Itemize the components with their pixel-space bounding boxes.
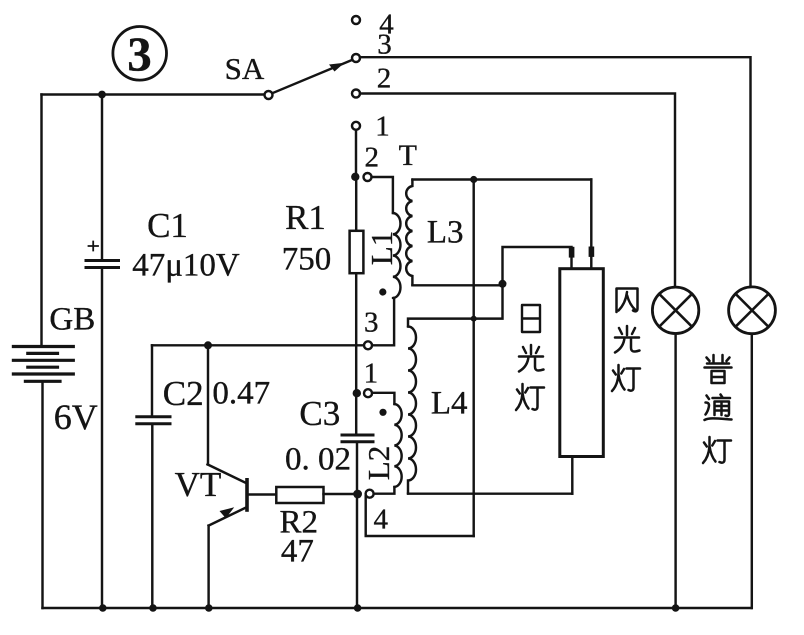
wire L1 top stub from terminal 2: [372, 177, 393, 213]
transistor VT base wire to R2: [249, 493, 277, 495]
node junctions on bottom rail: [99, 604, 107, 612]
label R2: [280, 505, 319, 542]
node junction HV vertical / L4 top line: [471, 316, 477, 322]
phase dot L1: [379, 288, 386, 295]
switch SA contact 1: [352, 122, 360, 130]
inductor L4 winding (secondary bottom, bumps right): [408, 327, 416, 494]
label C2 value 0.47: [212, 376, 270, 413]
battery GB: [13, 347, 73, 382]
switch SA contact 4: [352, 16, 360, 24]
label 闪光灯 (flash lamp): [617, 289, 638, 313]
label R1: [285, 198, 326, 238]
terminal 3 circle of transformer T: [364, 341, 372, 349]
label terminal 1: [364, 358, 379, 391]
lamp flash (闪光灯) bulb circle: [652, 287, 698, 333]
label C1: [147, 206, 188, 246]
capacitor C3 plates: [342, 435, 373, 442]
inductor L2 winding (feedback, bumps right): [394, 404, 401, 487]
C1 plus sign: [89, 242, 99, 251]
node junction collector branch: [204, 341, 212, 349]
lamp flash X: [659, 294, 692, 327]
switch SA pivot circle: [265, 91, 273, 99]
wire contact3 to ordinary lamp (top long wire): [360, 57, 751, 287]
inductor L3 winding (secondary top, bumps left): [406, 180, 412, 286]
capacitor C2 plates: [137, 417, 170, 424]
label 日光灯 (fluorescent lamp): [522, 305, 540, 332]
wire flash lamp bottom: [674, 334, 676, 609]
wire R2 to node: [324, 493, 357, 495]
label contact 1: [375, 111, 390, 144]
label contact 2: [377, 62, 392, 95]
fluorescent tube body: [560, 269, 604, 457]
label L2 (rotated): [361, 446, 397, 480]
tube right pin wire from L3-top line: [590, 180, 592, 247]
inductor L1 winding (primary, bumps right): [393, 213, 401, 298]
transistor VT (PNP) collector diagonal: [208, 464, 247, 483]
wire L3 top horizontal to right pin corner: [412, 178, 591, 180]
label GB: [49, 302, 95, 339]
capacitor C1 (electrolytic, polarized): [86, 261, 119, 268]
label 普通灯 (ordinary lamp): [705, 355, 732, 383]
label 6V: [54, 396, 98, 438]
lamp ordinary (普通灯) bulb circle: [729, 287, 776, 334]
wire long HV vertical: [472, 180, 474, 537]
label L4: [431, 386, 468, 423]
label terminal 3: [364, 307, 379, 340]
terminal 2 circle of transformer T: [364, 173, 372, 181]
wire L4 bottom horizontal to tube bottom stub: [408, 492, 572, 494]
label terminal 2: [365, 142, 380, 175]
circled figure number 3 badge: [113, 27, 167, 81]
wire U-path terminal4 to secondary bottom: [366, 496, 474, 536]
label VT: [175, 465, 222, 505]
transistor VT base bar: [245, 480, 249, 510]
label C2: [163, 374, 204, 414]
node junction battery top rail: [98, 91, 106, 99]
wire terminal3 horizontal line (to C2 / collector branch): [152, 344, 364, 346]
label transformer T: [399, 139, 417, 173]
resistor R1 750 (vertical box): [350, 231, 364, 273]
label C3 value 0.02: [285, 442, 351, 479]
wire emitter down: [207, 526, 209, 608]
wire ordinary lamp bottom: [751, 334, 753, 608]
transistor VT emitter diagonal with arrow: [209, 508, 246, 526]
label contact 3: [377, 29, 392, 62]
wire contact1 down to transformer terminal 2: [355, 130, 357, 177]
wire bottom rail: [43, 607, 752, 609]
wire C1 branch vertical: [101, 95, 103, 609]
switch SA wiper arm with arrowhead: [272, 60, 352, 93]
node junction L3 bottom / filament tap: [499, 280, 507, 288]
label contact 4: [379, 9, 394, 42]
tube right pin lower stub: [590, 257, 592, 269]
wire L3bottom down to L4 top line: [408, 285, 503, 326]
wire collector vertical: [207, 345, 209, 464]
wire left vertical (battery branch): [42, 95, 43, 609]
terminal 1 circle of transformer T: [364, 389, 372, 397]
terminal 4 circle of transformer T: [366, 490, 374, 498]
node junction terminal2: [351, 173, 359, 181]
wire tube bottom stub: [571, 457, 573, 494]
resistor R2 47 (horizontal box): [276, 487, 323, 503]
tube left pin (thick): [569, 247, 575, 258]
wire L2 top stub: [372, 393, 394, 404]
label R1 value 750: [282, 242, 332, 279]
wire C3 bottom to lower node: [356, 442, 358, 608]
node junction R2/C3/terminal4: [353, 490, 362, 499]
lamp ordinary X: [736, 294, 769, 327]
wire filament tap up to tube left pin: [503, 247, 572, 285]
tube right pin (thick): [589, 247, 595, 257]
label figure number 3: [127, 26, 152, 83]
label L3: [427, 215, 464, 252]
capacitor C2 branch: [151, 345, 154, 608]
label L1 (rotated): [364, 231, 400, 265]
wire main vertical through R1: [355, 177, 357, 435]
label SA: [225, 51, 265, 87]
label R2 value 47: [281, 534, 314, 571]
label C1 value 47u10V: [132, 248, 240, 285]
wire contact2 to flash lamp: [360, 94, 675, 288]
wire L3 bottom horizontal: [412, 284, 502, 286]
wire top-left horizontal (battery+ to SA pivot): [42, 93, 265, 95]
label C3: [299, 394, 340, 434]
switch SA contact 3: [352, 54, 360, 62]
switch SA contact 2: [352, 90, 360, 98]
wire terminal3 stub up to L1 bottom: [372, 298, 394, 345]
node junction L3 top / HV vertical: [470, 176, 477, 183]
label terminal 4: [374, 504, 389, 537]
node junction terminal1: [353, 389, 361, 397]
phase dot L2: [379, 409, 386, 416]
wire L2 bottom stub to terminal 4: [374, 487, 395, 494]
